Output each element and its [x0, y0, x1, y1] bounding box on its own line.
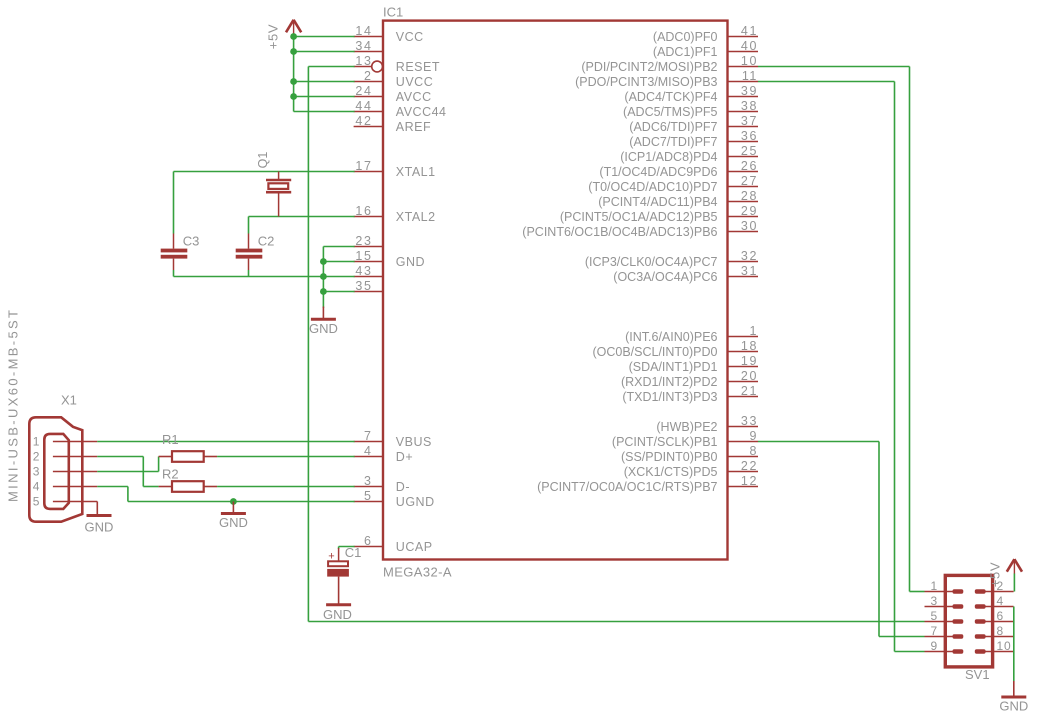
svg-text:19: 19: [741, 354, 758, 368]
svg-text:33: 33: [741, 414, 758, 428]
svg-text:10: 10: [741, 54, 758, 68]
op-amp U1: IC1 MEGA32-A body outline: [383, 21, 728, 560]
svg-text:10: 10: [997, 639, 1012, 653]
svg-text:+5V: +5V: [988, 562, 1003, 588]
svg-text:13: 13: [355, 54, 372, 68]
IC1 right pin 19 (SDA/INT1)PD1: [629, 354, 758, 374]
svg-text:39: 39: [741, 84, 758, 98]
wire UCAP to C1: [339, 547, 355, 550]
capacitor C3: [161, 234, 188, 271]
label R1: [162, 432, 179, 447]
svg-text:(OC0B/SCL/INT0)PD0: (OC0B/SCL/INT0)PD0: [592, 345, 717, 359]
svg-text:25: 25: [741, 144, 758, 158]
wire GND pins bus: [323, 247, 354, 309]
resistor R1: [159, 451, 218, 462]
svg-text:SV1: SV1: [965, 667, 990, 682]
IC1 right pin 40 (ADC1)PF1: [653, 39, 758, 59]
capacitor C2: [236, 234, 263, 271]
svg-text:UVCC: UVCC: [396, 75, 433, 89]
ground symbol below UGND wire: [219, 502, 248, 531]
svg-text:44: 44: [355, 99, 372, 113]
svg-text:GND: GND: [309, 321, 338, 336]
svg-text:GND: GND: [999, 699, 1028, 714]
svg-text:UCAP: UCAP: [396, 540, 433, 554]
wire +5V to SV1 pin 2: [1013, 574, 1015, 592]
svg-text:(ADC1)PF1: (ADC1)PF1: [653, 45, 718, 59]
svg-text:(ADC6/TDI)PF7: (ADC6/TDI)PF7: [629, 120, 717, 134]
ground symbol at X1 pin 5: [85, 502, 114, 535]
IC1 left pin 5 UGND: [354, 489, 435, 509]
label Q1: [256, 152, 270, 169]
svg-text:42: 42: [355, 114, 372, 128]
X1 pin 4: [33, 480, 98, 494]
svg-text:29: 29: [741, 204, 758, 218]
wire RESET from IC1 pin 13 to SV1 pin 5: [308, 67, 924, 622]
svg-text:16: 16: [355, 204, 372, 218]
IC1 left pin 42 AREF: [354, 114, 432, 134]
svg-text:22: 22: [741, 459, 758, 473]
svg-text:2: 2: [33, 450, 40, 464]
IC1 right pin 27 (T0/OC4D/ADC10)PD7: [588, 174, 758, 194]
label IC1: [383, 5, 403, 20]
svg-text:Q1: Q1: [256, 152, 270, 169]
IC1 right pin 21 (TXD1/INT3)PD3: [622, 384, 758, 404]
IC1 left pin 43: [354, 264, 383, 278]
IC1 right pin 28 (PCINT4/ADC11)PB4: [598, 189, 758, 209]
wire +5V to pin row 5: [294, 111, 355, 113]
wire capacitor ground rail: [174, 270, 324, 277]
X1 pin 5: [33, 495, 98, 509]
IC1 left pin 6 UCAP: [354, 534, 433, 554]
svg-text:(INT.6/AIN0)PE6: (INT.6/AIN0)PE6: [625, 330, 717, 344]
IC1 right pin 1 (INT.6/AIN0)PE6: [625, 324, 758, 344]
svg-text:1: 1: [33, 435, 40, 449]
wire +5V to pin row 3: [294, 81, 355, 83]
crystal Q1: [266, 172, 291, 217]
label C2: [258, 234, 275, 249]
IC1 left pin 34: [354, 39, 383, 53]
wire XTAL1 net: [174, 172, 355, 234]
IC1 right pin 8 (SS/PDINT0)PB0: [621, 444, 758, 464]
wire X1 pin3 to R1: [97, 457, 158, 472]
svg-text:MINI-USB-UX60-MB-5ST: MINI-USB-UX60-MB-5ST: [6, 308, 21, 502]
svg-text:(ADC7/TDI)PF7: (ADC7/TDI)PF7: [629, 135, 717, 149]
SV1 pin 4: [975, 594, 1014, 609]
IC1 left pin 14 VCC: [354, 24, 424, 44]
wire R1 to IC1 D+: [217, 456, 355, 458]
wire +5V to pin row 0: [294, 36, 355, 38]
svg-text:XTAL2: XTAL2: [396, 210, 436, 224]
svg-text:32: 32: [741, 249, 758, 263]
svg-text:9: 9: [931, 639, 938, 653]
svg-text:GND: GND: [219, 515, 248, 530]
svg-text:1: 1: [931, 579, 938, 593]
IC1 left pin 17 XTAL1: [354, 159, 436, 179]
supply +5V symbol at SV1: [988, 559, 1023, 587]
connector SV1 body: [945, 575, 992, 667]
label X1: [61, 393, 77, 408]
svg-text:X1: X1: [61, 393, 77, 408]
svg-text:(PDO/PCINT3/MISO)PB3: (PDO/PCINT3/MISO)PB3: [575, 75, 717, 89]
svg-text:AVCC: AVCC: [396, 90, 432, 104]
supply +5V symbol (top left): [266, 20, 302, 49]
wire VBUS: X1 pin1 to IC1 VBUS: [97, 441, 354, 443]
wire X1 pin4 to IC1 UGND: [97, 487, 354, 502]
junction UGND ground tap: [230, 498, 237, 505]
svg-text:43: 43: [355, 264, 372, 278]
label C1: [345, 545, 362, 560]
svg-text:(ICP3/CLK0/OC4A)PC7: (ICP3/CLK0/OC4A)PC7: [585, 255, 718, 269]
svg-text:17: 17: [355, 159, 372, 173]
svg-text:(SS/PDINT0)PB0: (SS/PDINT0)PB0: [621, 450, 718, 464]
IC1 right pin 29 (PCINT5/OC1A/ADC12)PB5: [560, 204, 758, 224]
svg-text:GND: GND: [323, 607, 352, 622]
svg-text:C1: C1: [345, 545, 362, 560]
svg-text:XTAL1: XTAL1: [396, 165, 436, 179]
svg-text:3: 3: [33, 465, 40, 479]
svg-text:5: 5: [931, 609, 938, 623]
IC1 right pin 36 (ADC7/TDI)PF7: [629, 129, 758, 149]
IC1 right pin 18 (OC0B/SCL/INT0)PD0: [592, 339, 758, 359]
svg-text:(ADC5/TMS)PF5: (ADC5/TMS)PF5: [623, 105, 718, 119]
svg-text:3: 3: [931, 594, 938, 608]
junction +5V rail row 4: [290, 93, 297, 100]
svg-text:(PCINT6/OC1B/OC4B/ADC13)PB6: (PCINT6/OC1B/OC4B/ADC13)PB6: [522, 225, 717, 239]
IC1 left pin 44 AVCC44: [354, 99, 447, 119]
IC1 right pin 38 (ADC5/TMS)PF5: [623, 99, 758, 119]
IC1 left pin 24 AVCC: [354, 84, 432, 104]
X1 pin 3: [33, 465, 98, 479]
svg-text:23: 23: [355, 234, 372, 248]
svg-text:(T1/OC4D/ADC9PD6: (T1/OC4D/ADC9PD6: [599, 165, 717, 179]
svg-text:6: 6: [997, 609, 1004, 623]
wire X1 pin2 to R2: [97, 457, 158, 487]
label MEGA32-A value: [383, 565, 452, 580]
wire XTAL2 net: [249, 217, 355, 234]
svg-text:24: 24: [355, 84, 372, 98]
svg-text:26: 26: [741, 159, 758, 173]
svg-text:36: 36: [741, 129, 758, 143]
svg-text:(TXD1/INT3)PD3: (TXD1/INT3)PD3: [622, 390, 717, 404]
IC1 right pin 12 (PCINT7/OC0A/OC1C/RTS)PB7: [537, 474, 758, 494]
IC1 right pin 22 (XCK1/CTS)PD5: [624, 459, 758, 479]
svg-text:27: 27: [741, 174, 758, 188]
svg-text:5: 5: [364, 489, 373, 503]
svg-text:(HWB)PE2: (HWB)PE2: [656, 420, 717, 434]
svg-text:D+: D+: [396, 450, 413, 464]
svg-text:7: 7: [931, 624, 938, 638]
svg-text:+: +: [328, 551, 334, 563]
IC1 left pin 13 RESET: [354, 54, 440, 74]
IC1 right pin 11 (PDO/PCINT3/MISO)PB3: [575, 69, 758, 89]
IC1 right pin 31 (OC3A/OC4A)PC6: [613, 264, 758, 284]
svg-text:(OC3A/OC4A)PC6: (OC3A/OC4A)PC6: [613, 270, 717, 284]
svg-text:C2: C2: [258, 234, 275, 249]
IC1 right pin 10 (PDI/PCINT2/MOSI)PB2: [581, 54, 758, 74]
svg-text:(ADC0)PF0: (ADC0)PF0: [653, 30, 718, 44]
svg-text:20: 20: [741, 369, 758, 383]
junction GND bus row 16: [320, 273, 327, 280]
svg-text:(ICP1/ADC8)PD4: (ICP1/ADC8)PD4: [620, 150, 717, 164]
svg-text:3: 3: [364, 474, 373, 488]
ground symbol below C1: [323, 577, 352, 622]
svg-text:5: 5: [33, 495, 40, 509]
junction +5V rail row 3: [290, 78, 297, 85]
svg-text:2: 2: [364, 69, 373, 83]
wire PB2 MOSI to SV1 pin 1: [758, 67, 925, 592]
junction GND bus row 15: [320, 258, 327, 265]
IC1 right pin 25 (ICP1/ADC8)PD4: [620, 144, 758, 164]
svg-text:AVCC44: AVCC44: [396, 105, 447, 119]
svg-text:AREF: AREF: [396, 120, 431, 134]
svg-text:R2: R2: [162, 466, 179, 481]
IC1 right pin 41 (ADC0)PF0: [653, 24, 758, 44]
IC1 right pin 37 (ADC6/TDI)PF7: [629, 114, 758, 134]
SV1 pin 8: [975, 624, 1014, 639]
svg-text:MEGA32-A: MEGA32-A: [383, 565, 452, 580]
svg-text:15: 15: [355, 249, 372, 263]
junction +5V rail row 1: [290, 48, 297, 55]
svg-text:4: 4: [33, 480, 40, 494]
svg-text:1: 1: [749, 324, 758, 338]
junction +5V rail row 0: [290, 33, 297, 40]
IC1 left pin 23: [354, 234, 383, 248]
wire +5V rail vertical: [293, 37, 295, 112]
svg-text:(XCK1/CTS)PD5: (XCK1/CTS)PD5: [624, 465, 718, 479]
svg-text:(PCINT4/ADC11)PB4: (PCINT4/ADC11)PB4: [598, 195, 717, 209]
svg-text:IC1: IC1: [383, 5, 403, 20]
svg-text:C3: C3: [183, 234, 200, 249]
IC1 right pin 39 (ADC4/TCK)PF4: [624, 84, 758, 104]
svg-text:4: 4: [364, 444, 373, 458]
IC1 right pin 33 (HWB)PE2: [656, 414, 758, 434]
svg-text:+5V: +5V: [266, 24, 281, 50]
wire PB1 SCLK to SV1 pin 7: [758, 442, 925, 637]
svg-text:GND: GND: [85, 520, 114, 535]
svg-text:(PCINT5/OC1A/ADC12)PB5: (PCINT5/OC1A/ADC12)PB5: [560, 210, 718, 224]
ground symbol below SV1: [999, 681, 1028, 714]
svg-text:(ADC4/TCK)PF4: (ADC4/TCK)PF4: [624, 90, 717, 104]
SV1 pin 9: [925, 639, 964, 654]
svg-text:VBUS: VBUS: [396, 435, 432, 449]
SV1 pin 1: [925, 579, 964, 594]
IC1 right pin 26 (T1/OC4D/ADC9PD6: [599, 159, 758, 179]
SV1 pin 6: [975, 609, 1014, 624]
capacitor C1 (polarized): [327, 548, 349, 577]
svg-text:4: 4: [997, 594, 1004, 608]
X1 pin 1: [33, 435, 98, 449]
svg-text:RESET: RESET: [396, 60, 440, 74]
IC1 right pin 9 (PCINT/SCLK)PB1: [612, 429, 758, 449]
svg-text:(SDA/INT1)PD1: (SDA/INT1)PD1: [629, 360, 718, 374]
SV1 pin 7: [925, 624, 964, 639]
svg-text:7: 7: [364, 429, 373, 443]
IC1 left pin 16 XTAL2: [354, 204, 436, 224]
svg-text:18: 18: [741, 339, 758, 353]
IC1 left pin 15 GND: [354, 249, 425, 269]
label R2: [162, 466, 179, 481]
wire +5V to pin row 1: [294, 51, 355, 53]
svg-text:GND: GND: [396, 255, 425, 269]
svg-text:D-: D-: [396, 480, 410, 494]
resistor R2: [159, 481, 218, 492]
svg-text:(T0/OC4D/ADC10)PD7: (T0/OC4D/ADC10)PD7: [588, 180, 717, 194]
junction GND bus row 17: [320, 288, 327, 295]
IC1 right pin 20 (RXD1/INT2)PD2: [621, 369, 758, 389]
SV1 pin 2: [975, 579, 1014, 594]
connector X1 inner cavity: [44, 434, 69, 509]
ground symbol below GND pins: [309, 307, 338, 336]
IC1 left pin 2 UVCC: [354, 69, 434, 89]
label MINI-USB-UX60-MB-5ST (vertical): [6, 308, 21, 502]
svg-text:(PCINT/SCLK)PB1: (PCINT/SCLK)PB1: [612, 435, 718, 449]
wire PB3 MISO to SV1 pin 9: [758, 82, 925, 652]
svg-text:21: 21: [741, 384, 758, 398]
SV1 pin 3: [925, 594, 964, 609]
SV1 pin 10: [975, 639, 1014, 654]
svg-text:11: 11: [742, 69, 758, 83]
svg-text:35: 35: [355, 279, 372, 293]
IC1 right pin 32 (ICP3/CLK0/OC4A)PC7: [585, 249, 758, 269]
svg-text:14: 14: [355, 24, 372, 38]
svg-text:9: 9: [749, 429, 758, 443]
svg-text:6: 6: [364, 534, 373, 548]
svg-text:(PCINT7/OC0A/OC1C/RTS)PB7: (PCINT7/OC0A/OC1C/RTS)PB7: [537, 480, 717, 494]
X1 pin 2: [33, 450, 98, 464]
connector X1 MINI-USB outer shell: [29, 417, 82, 521]
IC1 left pin 4 D+: [354, 444, 414, 464]
svg-text:28: 28: [741, 189, 758, 203]
label SV1: [965, 667, 990, 682]
svg-text:R1: R1: [162, 432, 179, 447]
svg-text:30: 30: [741, 219, 758, 233]
svg-text:VCC: VCC: [396, 30, 424, 44]
IC1 left pin 7 VBUS: [354, 429, 432, 449]
svg-text:(RXD1/INT2)PD2: (RXD1/INT2)PD2: [621, 375, 718, 389]
svg-text:41: 41: [741, 24, 758, 38]
SV1 pin 5: [925, 609, 964, 624]
wire R2 to IC1 D-: [217, 486, 355, 488]
svg-text:37: 37: [741, 114, 758, 128]
wire +5V to pin row 4: [294, 96, 355, 98]
label C3: [183, 234, 200, 249]
svg-text:8: 8: [749, 444, 758, 458]
IC1 left pin 3 D-: [354, 474, 410, 494]
svg-text:38: 38: [741, 99, 758, 113]
svg-text:34: 34: [355, 39, 372, 53]
svg-text:8: 8: [997, 624, 1004, 638]
wire SV1 pins 4 6 8 10 ground bus: [1013, 607, 1015, 682]
svg-text:40: 40: [741, 39, 758, 53]
svg-text:UGND: UGND: [396, 495, 435, 509]
svg-text:31: 31: [741, 264, 758, 278]
IC1 left pin 35: [354, 279, 383, 293]
svg-text:(PDI/PCINT2/MOSI)PB2: (PDI/PCINT2/MOSI)PB2: [581, 60, 717, 74]
svg-text:12: 12: [741, 474, 758, 488]
IC1 right pin 30 (PCINT6/OC1B/OC4B/ADC13)PB6: [522, 219, 758, 239]
